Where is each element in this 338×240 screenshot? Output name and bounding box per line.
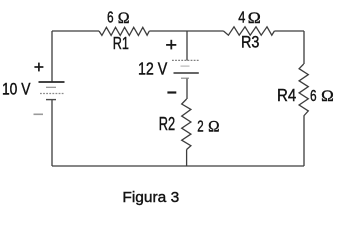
svg-text:Ω: Ω bbox=[321, 87, 334, 105]
svg-text:6: 6 bbox=[310, 88, 317, 105]
wire middle below R2 bbox=[186, 150, 188, 167]
resistor R4 bbox=[299, 64, 308, 116]
battery V2 12V plate short bbox=[181, 65, 190, 67]
minus sign of 12V source bbox=[167, 91, 176, 93]
svg-text:R3: R3 bbox=[241, 33, 259, 51]
svg-text:12 V: 12 V bbox=[138, 59, 168, 79]
battery V1 10V plate long top bbox=[39, 81, 65, 83]
battery V1 10V plate long lower bbox=[40, 93, 64, 95]
svg-text:Ω: Ω bbox=[248, 10, 261, 27]
battery V2 12V plate short bottom bbox=[181, 77, 189, 79]
wire middle above 12V battery bbox=[186, 31, 188, 60]
wire left below battery bbox=[51, 100, 53, 166]
svg-text:6: 6 bbox=[107, 10, 114, 27]
wire middle between 12V battery and R2 bbox=[186, 78, 188, 99]
svg-text:Ω: Ω bbox=[118, 10, 130, 27]
battery V2 12V plate long top bbox=[172, 59, 199, 61]
svg-text:10 V: 10 V bbox=[2, 80, 30, 99]
plus sign of 10V source bbox=[34, 63, 43, 72]
faint minus sign of 10V source bbox=[34, 113, 44, 115]
svg-text:R2: R2 bbox=[159, 114, 175, 134]
battery V1 10V plate short bottom bbox=[46, 99, 56, 101]
resistor R1 bbox=[99, 27, 149, 35]
plus sign of 12V source bbox=[166, 40, 176, 50]
wire left above battery bbox=[51, 31, 53, 82]
battery V2 12V plate long lower bbox=[174, 72, 199, 74]
resistor R3 bbox=[224, 27, 275, 35]
wire top-right segment bbox=[274, 30, 304, 32]
battery V1 10V plate short bbox=[46, 86, 56, 88]
svg-text:Ω: Ω bbox=[208, 119, 219, 136]
svg-text:R1: R1 bbox=[113, 33, 129, 53]
svg-text:2: 2 bbox=[197, 118, 203, 135]
resistor R2 bbox=[182, 99, 191, 150]
svg-text:Figura 3: Figura 3 bbox=[122, 189, 179, 206]
svg-text:4: 4 bbox=[238, 10, 245, 27]
wire right below R4 bbox=[303, 116, 305, 166]
svg-text:R4: R4 bbox=[277, 85, 296, 105]
wire top-left segment bbox=[52, 30, 99, 32]
wire right above R4 bbox=[303, 31, 305, 64]
wire top-middle segment bbox=[149, 30, 223, 32]
wire bottom bbox=[52, 165, 304, 167]
